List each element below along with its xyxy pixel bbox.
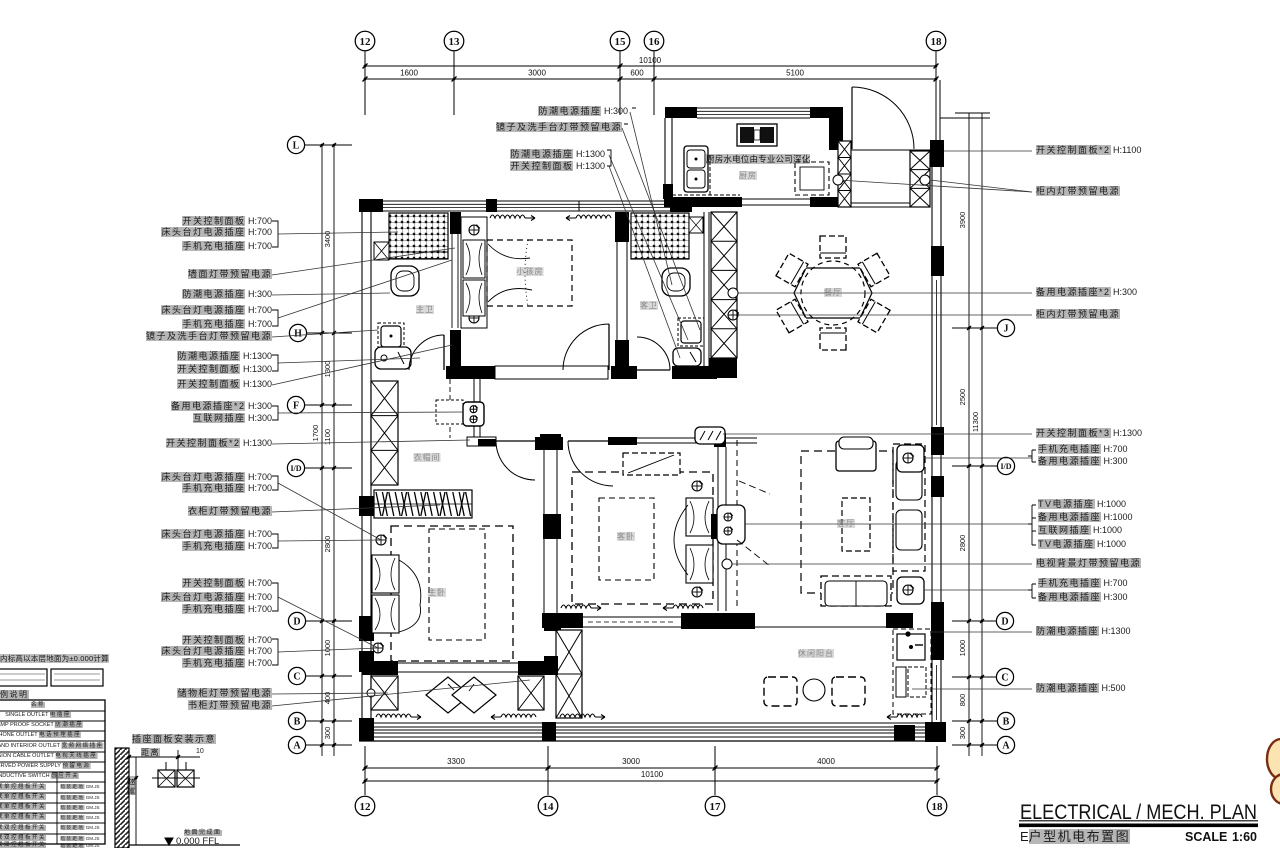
grid stems top xyxy=(364,52,366,116)
svg-text:D: D xyxy=(293,617,300,628)
guest bath toilet xyxy=(662,268,690,296)
svg-text:C: C xyxy=(293,672,300,683)
grid bubble A (right) xyxy=(952,744,997,746)
leader lines top labels xyxy=(630,112,672,285)
wall: kitchen left x665 xyxy=(664,118,666,199)
diag decor lines living xyxy=(739,481,770,494)
wall: bath/kids x450-461 xyxy=(451,234,453,328)
svg-text:F: F xyxy=(293,401,299,412)
wall: bottom balcony window band xyxy=(374,722,930,724)
TV socket panel xyxy=(717,505,745,544)
grid bubble 15 (top) xyxy=(610,31,630,51)
master room bottom wall xyxy=(362,661,398,675)
bottom dimension line 10100 xyxy=(365,780,937,782)
master bath washer xyxy=(375,347,411,369)
storage xbox left balcony xyxy=(371,676,398,710)
wall: guest room bottom y613-631 xyxy=(542,613,583,628)
coffee table xyxy=(842,498,870,551)
legend title partial xyxy=(0,691,29,699)
grid bubble B (right) xyxy=(952,720,997,722)
svg-text:3000: 3000 xyxy=(528,69,546,78)
svg-text:4000: 4000 xyxy=(817,757,835,766)
wall: guest bath east + hallway cabinet xyxy=(703,212,705,366)
guest bed inner dashed xyxy=(599,498,654,580)
svg-text:B: B xyxy=(294,717,301,728)
grid bubble 12 (bottom) xyxy=(355,796,375,816)
wall: kitchen right pilaster + entry xyxy=(829,107,843,150)
kitchen note xyxy=(706,155,810,164)
leader lines left labels xyxy=(278,232,398,234)
leader lines right labels xyxy=(944,150,1032,152)
svg-text:1000: 1000 xyxy=(958,640,967,657)
living area dashed zone xyxy=(801,451,893,593)
svg-text:H: H xyxy=(294,329,302,340)
room label: kids room xyxy=(517,268,544,276)
svg-text:5100: 5100 xyxy=(786,69,804,78)
svg-text:I/D: I/D xyxy=(1000,462,1011,471)
svg-text:D: D xyxy=(1001,617,1008,628)
logo blob top xyxy=(1267,739,1280,779)
wall: right exterior x930-944 xyxy=(931,167,933,722)
grid bubble 17 (bottom) xyxy=(705,796,725,816)
svg-text:3900: 3900 xyxy=(958,212,967,229)
room label: closet xyxy=(414,454,441,462)
master headboard sockets xyxy=(376,535,386,545)
curtain balcony right xyxy=(897,714,922,717)
balcony washer socket dot xyxy=(905,631,910,636)
master bath door xyxy=(409,335,444,370)
sofa bottom xyxy=(821,576,891,606)
closet wardrobe zigzag xyxy=(374,490,472,518)
storage diamond pillows xyxy=(426,677,470,713)
master bath shower grid hatch xyxy=(389,213,448,259)
closet 衣帽间 right wall xyxy=(473,379,475,440)
top callout labels xyxy=(538,107,628,116)
kitchen fridge dashed xyxy=(795,162,829,195)
balcony chairs and table xyxy=(764,677,797,706)
svg-text:1300: 1300 xyxy=(323,361,332,378)
corridor socket group (switch *3) xyxy=(695,427,725,444)
svg-text:C: C xyxy=(1001,673,1008,684)
master bed inner dashed xyxy=(429,529,485,640)
balcony washer area right xyxy=(893,629,931,714)
svg-text:3000: 3000 xyxy=(622,757,640,766)
wall: bath strip bottom xyxy=(446,366,495,379)
grid bubble D (left) xyxy=(306,620,352,622)
svg-text:11300: 11300 xyxy=(971,412,980,432)
svg-text:B: B xyxy=(1003,717,1010,728)
master bedroom door xyxy=(496,441,535,480)
master bed pillows xyxy=(372,555,399,593)
grid bubble I/D (left) xyxy=(305,467,352,469)
wall: left exterior x362 xyxy=(361,212,363,720)
svg-text:300: 300 xyxy=(323,727,332,740)
svg-text:18: 18 xyxy=(931,36,943,48)
entry shoe cabinet x-box xyxy=(910,151,930,207)
detail: socket symbols xyxy=(158,770,175,787)
svg-text:10100: 10100 xyxy=(641,770,664,779)
top label brackets xyxy=(607,150,611,166)
closet switch panel xyxy=(436,400,463,424)
bottom dimension line segments xyxy=(365,767,937,769)
balcony divider xbox at grid14 xyxy=(556,630,582,718)
storage xbox mid xyxy=(518,676,544,710)
kitchen stove xyxy=(737,124,777,146)
detail: FFL line xyxy=(129,844,240,846)
svg-text:3300: 3300 xyxy=(447,757,465,766)
shaft x-box kitchen right xyxy=(838,141,851,207)
svg-text:16: 16 xyxy=(649,36,661,48)
curtains balcony xyxy=(376,714,411,717)
grid bubble J (right) xyxy=(952,327,997,329)
curtains guest room bottom xyxy=(561,605,591,608)
grid bubble 16 (top) xyxy=(644,31,664,51)
grid bubble H (left) xyxy=(307,332,352,334)
grid bubble C (right) xyxy=(952,676,996,678)
guest bed pillows xyxy=(686,498,713,536)
svg-text:1700: 1700 xyxy=(311,425,320,442)
grid bubble C (left) xyxy=(306,675,352,677)
master bath toilet xyxy=(391,266,419,296)
wall: master/guest bedrooms xyxy=(543,447,545,613)
room label: guest bedroom xyxy=(617,533,635,541)
logo blob bottom xyxy=(1271,774,1280,804)
curtain symbol kids room window xyxy=(490,215,525,218)
svg-text:600: 600 xyxy=(630,69,644,78)
svg-text:J: J xyxy=(1004,324,1009,335)
grid bubble 14 (bottom) xyxy=(538,796,558,816)
armchair top xyxy=(836,441,876,471)
master bath sink xyxy=(378,323,404,350)
svg-text:17: 17 xyxy=(710,801,722,813)
room label: living room xyxy=(837,520,855,528)
svg-text:L: L xyxy=(293,141,300,152)
wall: bedroom top band y199-211 xyxy=(383,200,486,202)
grid bubble B (left) xyxy=(306,720,352,722)
svg-text:1:60: 1:60 xyxy=(1232,830,1257,844)
room label: master bedroom xyxy=(428,589,446,597)
balcony right bottom wall xyxy=(929,725,946,741)
grid bubble I/D (right) xyxy=(952,465,997,467)
grid bubble 18 (bottom) xyxy=(927,796,947,816)
socket at dining cabinet xyxy=(728,288,738,298)
svg-text:A: A xyxy=(1002,741,1010,752)
leader bracket right: phone/spare xyxy=(1028,450,1036,462)
svg-text:300: 300 xyxy=(958,727,967,740)
svg-text:12: 12 xyxy=(360,36,372,48)
leader brackets left xyxy=(272,221,278,247)
dining table xyxy=(794,261,872,325)
entry door D1 xyxy=(851,87,853,149)
grid bubble 13 (top) xyxy=(444,31,464,51)
kids bed headboard strip xyxy=(461,217,487,328)
master bed dashed outer xyxy=(391,526,513,661)
grid bubble 12 (top) xyxy=(355,31,375,51)
svg-text:12: 12 xyxy=(360,801,372,813)
guest dresser dashed xyxy=(623,453,680,475)
grid bubble L (left) xyxy=(305,144,352,146)
svg-text:2800: 2800 xyxy=(958,535,967,552)
guest bath door xyxy=(637,337,670,370)
room label: master bath xyxy=(416,306,434,314)
grid bubble 18 (top) xyxy=(926,31,946,51)
legend table xyxy=(0,700,105,844)
title cjk xyxy=(1020,830,1130,843)
guest bed dashed outer xyxy=(572,472,713,604)
guest bed sockets xyxy=(692,481,702,491)
svg-text:2500: 2500 xyxy=(958,389,967,406)
legend table texts xyxy=(31,703,45,709)
kids bed dashed xyxy=(487,240,572,306)
svg-text:1000: 1000 xyxy=(323,640,332,657)
left callout labels xyxy=(182,217,272,226)
hallway cabinet x-box xyxy=(711,212,737,358)
left grid vertical dim lines xyxy=(321,145,323,756)
top dimension line 10100 xyxy=(365,65,936,67)
svg-text:2800: 2800 xyxy=(323,536,332,553)
grid bubble F (left) xyxy=(305,404,352,406)
detail sketch labels xyxy=(132,735,216,744)
detail: wall hatch bar xyxy=(115,748,129,848)
svg-text:800: 800 xyxy=(958,694,967,707)
kitchen sink xyxy=(684,146,708,192)
guest bedroom door xyxy=(568,441,613,486)
guest bath fixture xyxy=(673,348,701,366)
svg-text:1600: 1600 xyxy=(400,69,418,78)
grid stems bottom xyxy=(364,746,366,795)
svg-text:15: 15 xyxy=(615,36,627,48)
room label: dining xyxy=(824,289,842,297)
living socket group top xyxy=(897,445,924,472)
room label: guest bath xyxy=(640,302,658,310)
kitchen counter dashed xyxy=(709,155,711,195)
legend header boxes xyxy=(0,669,47,686)
sockets entry leaders xyxy=(833,175,843,185)
dining chairs xyxy=(820,236,846,258)
grid bubble D (right) xyxy=(952,620,996,622)
svg-text:10100: 10100 xyxy=(639,56,662,65)
svg-text:A: A xyxy=(293,741,301,752)
right callout labels xyxy=(1036,146,1141,155)
wall: guest/living x718-728 xyxy=(717,447,719,611)
closet shaft x-box strip xyxy=(371,381,398,485)
wall: living bottom y609-631 xyxy=(681,613,755,629)
detail: distance dim line xyxy=(129,756,200,758)
room label: kitchen xyxy=(739,172,757,180)
legend note xyxy=(0,655,109,663)
guest bath small box xyxy=(689,217,703,233)
chaise column right xyxy=(893,444,925,571)
wall: kitchen top band y107-118 xyxy=(697,107,810,109)
right grid vertical dim lines xyxy=(968,113,970,756)
svg-text:SCALE: SCALE xyxy=(1185,830,1227,844)
wall: kids/guest-bath x615-629 xyxy=(616,212,618,366)
detail: height dim xyxy=(135,757,137,845)
svg-text:13: 13 xyxy=(449,36,461,48)
grid bubble A (left) xyxy=(306,744,352,746)
guest bath sink xyxy=(678,318,704,346)
top dimension line segments xyxy=(365,78,936,80)
room label: leisure balcony xyxy=(798,650,834,658)
svg-text:18: 18 xyxy=(932,801,944,813)
TV dashed line living west xyxy=(736,440,738,608)
master bath small box xyxy=(374,242,389,260)
svg-text:I/D: I/D xyxy=(290,464,301,473)
living socket group bottom xyxy=(897,577,924,604)
corridor bottom wall y437 xyxy=(467,437,496,446)
wall: kitchen bottom y197-207 xyxy=(664,197,742,207)
kids room door xyxy=(563,324,609,370)
guest bath shower grid hatch xyxy=(631,213,689,259)
svg-text:14: 14 xyxy=(543,801,555,813)
